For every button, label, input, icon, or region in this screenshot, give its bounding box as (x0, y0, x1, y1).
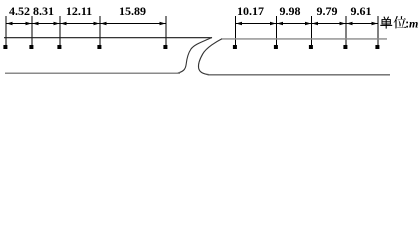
ground line right (208, 74, 391, 76)
ground line left (5, 72, 180, 74)
station point dot 3 (57, 45, 61, 49)
station tick 10 (377, 16, 379, 47)
svg-text:m: m (409, 17, 418, 31)
unit label colon (406, 22, 408, 28)
arrowheads segment 12.11 (61, 22, 100, 26)
svg-text:9.98: 9.98 (280, 4, 301, 18)
arrowheads segment 9.61 (347, 22, 378, 26)
station point dot 9 (343, 45, 347, 49)
station tick 3 (59, 16, 61, 47)
station tick 5 (165, 16, 167, 47)
station point dot 10 (375, 45, 379, 49)
route line left (4, 37, 212, 39)
break curve 2 (198, 39, 222, 75)
station tick 1 (5, 16, 7, 47)
unit label 位 (font outline path) (394, 16, 407, 29)
station point dot 1 (3, 45, 7, 49)
station tick 8 (311, 16, 313, 47)
route line right (222, 38, 388, 40)
station tick 6 (235, 16, 237, 47)
arrowheads segment 8.31 (33, 22, 60, 26)
svg-text:15.89: 15.89 (119, 4, 146, 18)
arrowheads segment 9.98 (277, 22, 311, 26)
station tick 9 (345, 16, 347, 47)
dimension line right group (236, 23, 379, 25)
break curve 1 (178, 37, 213, 73)
svg-text:10.17: 10.17 (237, 4, 264, 18)
arrowheads segment 4.52 (7, 22, 32, 26)
station point dot 7 (274, 45, 278, 49)
station point dot 4 (97, 45, 101, 49)
station tick 7 (276, 16, 278, 47)
station tick 2 (31, 16, 33, 47)
station point dot 5 (163, 45, 167, 49)
unit label 单 (hand-drawn strokes) (380, 17, 392, 29)
svg-text:12.11: 12.11 (66, 4, 92, 18)
svg-text:4.52: 4.52 (9, 4, 30, 18)
station point dot 2 (29, 45, 33, 49)
svg-text:8.31: 8.31 (33, 4, 54, 18)
station point dot 8 (309, 45, 313, 49)
arrowheads segment 9.79 (312, 22, 346, 26)
svg-text:9.79: 9.79 (317, 4, 338, 18)
station tick 4 (99, 16, 101, 47)
station point dot 6 (233, 45, 237, 49)
arrowheads segment 10.17 (236, 22, 276, 26)
arrowheads segment 15.89 (101, 22, 166, 26)
svg-text:9.61: 9.61 (351, 4, 372, 18)
dimension line left group (6, 23, 166, 25)
